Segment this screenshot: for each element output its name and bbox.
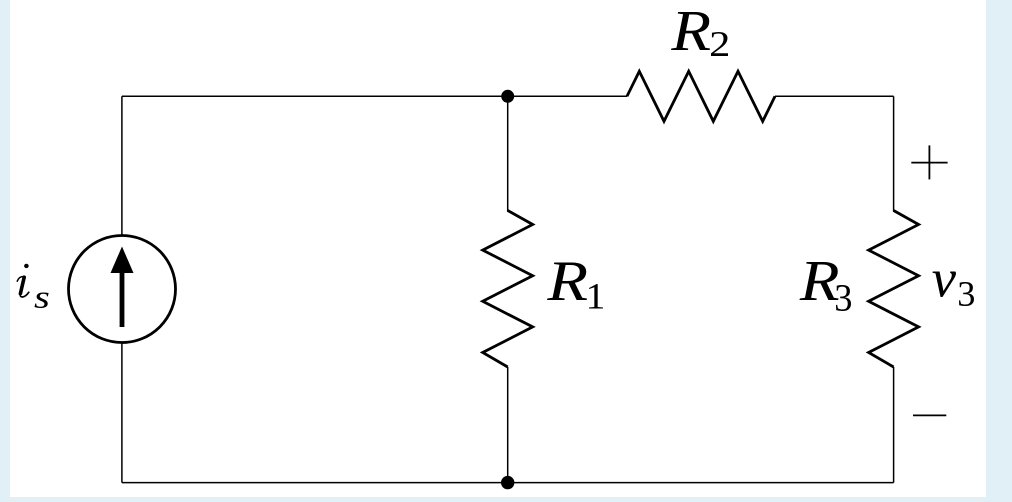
resistor R2 [627,71,775,121]
resistor R3 [869,211,919,368]
wire node A to R2 [508,95,627,97]
wire middle vertical lower [507,367,509,483]
node A (top junction) [501,90,514,103]
wire left vertical lower [121,343,123,483]
polarity minus sign [913,414,946,416]
label i_s [17,264,48,308]
node B (bottom junction) [501,476,514,489]
label v3 [932,272,974,306]
wire bottom [122,482,894,484]
label R3 [800,262,851,311]
wire middle vertical upper [507,96,509,211]
label R1 [547,263,603,309]
resistor R1 [483,211,533,368]
wire R2 to top-right corner [775,95,894,97]
wire top horizontal from left corner to node A [122,95,508,97]
current source Is [69,236,176,343]
polarity plus sign [911,145,947,179]
wire right vertical upper [893,96,895,211]
label R2 [671,12,728,56]
wire left vertical upper [121,96,123,236]
wire right vertical lower [893,367,895,483]
